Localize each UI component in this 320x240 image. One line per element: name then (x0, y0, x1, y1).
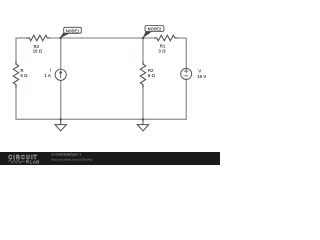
svg-text:6 Ω: 6 Ω (148, 73, 156, 78)
resistor R2 (140, 62, 145, 88)
wire top middle segment (47, 37, 157, 39)
svg-text:10 Ω: 10 Ω (33, 48, 43, 53)
junction node at NODE2 (142, 37, 144, 39)
svg-text:http://circuitlab.com/c/53m34g: http://circuitlab.com/c/53m34g (52, 157, 93, 161)
junction node bottom left (60, 118, 62, 120)
resistor R3 (27, 35, 51, 41)
current source arrowhead (59, 70, 63, 73)
svg-text:LAB: LAB (30, 159, 40, 164)
svg-text:5 Ω: 5 Ω (20, 73, 28, 78)
wire R2 branch upper (142, 38, 144, 64)
svg-text:NODE2: NODE2 (148, 26, 162, 32)
wire current-source branch upper (60, 38, 62, 69)
resistor R (13, 62, 18, 88)
node flag NODE1 pointer (59, 33, 69, 39)
wire left lower (15, 85, 17, 120)
wire top left segment (16, 37, 29, 39)
svg-text:V: V (198, 69, 201, 74)
svg-text:3 Ω: 3 Ω (158, 48, 166, 53)
wire left upper (15, 38, 17, 65)
junction node at NODE1 (60, 37, 62, 39)
svg-text:NODE1: NODE1 (66, 28, 80, 34)
CircuitLab logo capacitor mark (27, 160, 28, 163)
current source I1 (55, 69, 66, 80)
wire top right segment (175, 37, 187, 39)
wire right upper (185, 38, 187, 69)
svg-text:er.shishalakshya / 1: er.shishalakshya / 1 (52, 153, 82, 157)
wire bottom (16, 118, 186, 120)
junction node bottom right (142, 118, 144, 120)
wire current-source branch lower (60, 80, 62, 119)
svg-text:16 V: 16 V (197, 74, 206, 79)
CircuitLab logo wave (8, 160, 24, 164)
voltage source V (181, 68, 192, 79)
footer bar (0, 152, 220, 165)
ground symbol right (137, 119, 148, 130)
resistor R1 (154, 35, 177, 41)
node flag NODE2 box (145, 26, 164, 32)
svg-text:I: I (50, 67, 51, 72)
wire R2 branch lower (142, 85, 144, 120)
svg-text:1 A: 1 A (44, 73, 51, 78)
ground symbol left (55, 119, 66, 130)
node flag NODE2 pointer (143, 31, 152, 38)
node flag NODE1 box (64, 27, 82, 33)
wire right lower (185, 80, 187, 120)
